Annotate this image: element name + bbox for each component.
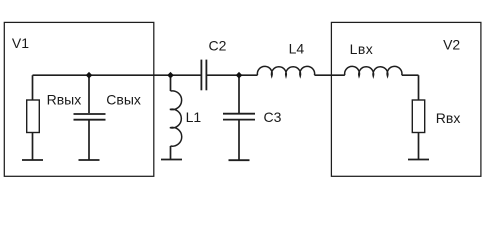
svg-text:V1: V1 bbox=[12, 35, 29, 51]
svg-text:V2: V2 bbox=[443, 37, 460, 53]
svg-text:L4: L4 bbox=[289, 41, 305, 57]
svg-text:C3: C3 bbox=[264, 109, 282, 125]
svg-text:Lвх: Lвх bbox=[350, 41, 374, 57]
svg-text:Rвх: Rвх bbox=[436, 110, 461, 126]
svg-text:Cвых: Cвых bbox=[106, 92, 141, 108]
svg-text:C2: C2 bbox=[209, 38, 227, 54]
svg-text:L1: L1 bbox=[186, 109, 202, 125]
svg-text:Rвых: Rвых bbox=[47, 92, 82, 108]
